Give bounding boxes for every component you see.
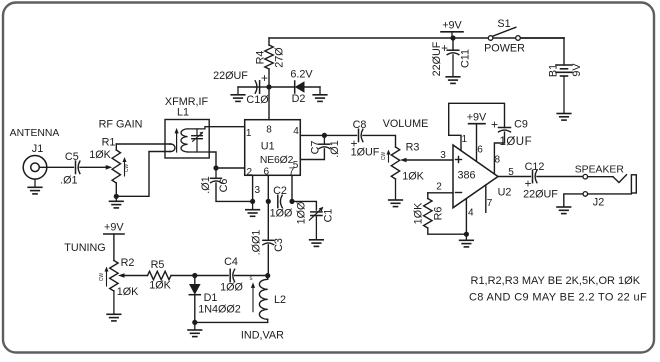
potentiometer R2 (110, 261, 118, 292)
node R4/C10/D2/pin8 (266, 84, 271, 89)
svg-text:C4: C4 (224, 256, 238, 268)
svg-text:C3: C3 (273, 238, 285, 252)
transformer L1 bottom link (188, 151, 210, 153)
svg-text:22ØUF: 22ØUF (431, 41, 443, 76)
wire node to D2 (269, 86, 295, 88)
svg-text:C11: C11 (460, 49, 472, 68)
wire L1 secondary to node C6 (209, 152, 216, 168)
svg-text:POWER: POWER (484, 43, 525, 55)
capacitor C3 (263, 239, 274, 241)
wire C7 to pin5 (300, 149, 324, 160)
IC U1 NE602 box (245, 120, 301, 176)
svg-text:.Ø1: .Ø1 (60, 175, 77, 187)
svg-text:C12: C12 (525, 161, 545, 173)
battery B1 (556, 64, 572, 66)
svg-text:NE6Ø2: NE6Ø2 (260, 155, 294, 166)
svg-text:R6: R6 (433, 207, 445, 221)
jack plug body (631, 175, 636, 193)
capacitor C7 (323, 135, 325, 144)
svg-text:R5: R5 (151, 259, 165, 271)
plus input mark (456, 159, 462, 161)
wire R1 top to L1 (116, 143, 170, 145)
node L1/C6/pin2 (213, 165, 218, 170)
node pin4/C7 (322, 133, 327, 138)
node R6/pin4 (464, 232, 469, 237)
ground U2 pin4 (465, 234, 467, 240)
resistor R6 (427, 193, 429, 199)
wire D1 to bottom node (194, 295, 196, 323)
wiper arrow R2 (118, 273, 125, 278)
capacitor C5 (75, 161, 77, 173)
svg-text:TUNING: TUNING (64, 242, 105, 254)
wire L2 bottom to D1 (195, 321, 268, 323)
svg-text:7: 7 (487, 198, 493, 209)
wire R2 to ground (113, 291, 115, 314)
wire U1 pin7 (291, 175, 293, 201)
node +9V/C11 (450, 35, 455, 40)
wire U2 pin7 stub (485, 185, 487, 212)
wire U1 pin8 (268, 87, 270, 120)
wire R3 wiper to U2 pin3 (407, 159, 454, 161)
svg-text:1ØUF: 1ØUF (351, 147, 380, 159)
transformer L1 primary loop (170, 144, 175, 152)
svg-text:2: 2 (436, 181, 442, 192)
wire jack sleeve to ground (564, 194, 583, 207)
wire R1 bottom (115, 183, 117, 196)
ground C1 (310, 239, 324, 241)
transformer L1 secondary winding (181, 129, 188, 152)
svg-text:.ØØ1: .ØØ1 (251, 230, 263, 256)
svg-text:1ØØ: 1ØØ (296, 201, 308, 224)
capacitor C9 (499, 127, 511, 129)
svg-text:C2: C2 (273, 185, 287, 197)
wire B1 to ground (563, 76, 565, 113)
capacitor C6 (215, 168, 217, 178)
wire U2 pin2 (428, 192, 453, 194)
svg-text:22ØUF: 22ØUF (523, 189, 558, 201)
capacitor C1 variable (311, 211, 322, 213)
diode D2 6.2V (294, 81, 296, 93)
svg-text:9V: 9V (571, 63, 583, 77)
svg-text:5: 5 (508, 167, 514, 178)
svg-text:2: 2 (247, 167, 253, 178)
node pin7/C2 (289, 199, 294, 204)
svg-text:L1: L1 (177, 107, 189, 119)
svg-text:U1: U1 (261, 141, 275, 153)
cw arrow R1 (124, 161, 126, 176)
svg-text:RF GAIN: RF GAIN (99, 119, 143, 131)
svg-text:C6: C6 (218, 179, 230, 193)
wire +9V to R2 (113, 234, 115, 261)
arrow L2 adjust (252, 286, 254, 312)
svg-text:.Ø1: .Ø1 (200, 176, 212, 193)
wire R3 to ground (395, 179, 397, 200)
wire R2 wiper to R5 (125, 275, 148, 277)
svg-text:1ØØ: 1ØØ (220, 282, 243, 294)
wire U2 pin6 (476, 124, 478, 162)
svg-text:22ØUF: 22ØUF (213, 70, 248, 82)
jack J2 sleeve contact (583, 192, 588, 197)
svg-text:C7: C7 (310, 141, 322, 155)
svg-text:6: 6 (477, 145, 483, 156)
wire U2 pin1 bypass loop (449, 103, 505, 150)
wire U2 pin4 (465, 199, 467, 234)
ground D2 (319, 87, 321, 95)
wire C11 top (452, 38, 454, 50)
svg-text:+9V: +9V (467, 112, 487, 124)
wire C12 to jack (537, 176, 583, 178)
wire R4 to node (268, 69, 270, 87)
wire C3 to node (267, 245, 269, 276)
svg-text:J1: J1 (32, 143, 43, 155)
wire U1 pin3 (252, 175, 254, 201)
switch S1 (488, 36, 493, 41)
transformer L1 trimmer capacitor (196, 129, 198, 136)
transformer L1 tuning arrow (176, 132, 178, 153)
wire pin4 net to C8 (324, 134, 356, 136)
svg-text:+9V: +9V (442, 20, 462, 32)
svg-text:U2: U2 (498, 187, 512, 199)
wire R1 bottom to L1 return (116, 152, 170, 197)
svg-text:27Ø: 27Ø (274, 47, 286, 68)
svg-text:S1: S1 (497, 18, 510, 30)
wire jack tip (588, 176, 613, 178)
svg-text:R3: R3 (406, 142, 420, 154)
resistor R4 (265, 45, 273, 69)
wire C6 to pin3 ground (216, 183, 253, 202)
wire C11 to ground (452, 55, 454, 77)
node pin6/C2 (266, 199, 271, 204)
wiper arrow R1 (106, 165, 113, 170)
jack J2 tip contact (583, 174, 588, 179)
svg-text:CW: CW (381, 152, 387, 161)
ground B1 (557, 113, 571, 115)
svg-text:CW: CW (99, 273, 105, 282)
wire node to U1 pin2 (216, 167, 245, 169)
svg-text:1: 1 (246, 128, 252, 139)
svg-text:L2: L2 (274, 294, 286, 306)
svg-text:s: s (250, 276, 253, 282)
wire R6 to node (428, 228, 467, 234)
capacitor C8 (358, 129, 360, 141)
svg-text:8: 8 (495, 155, 501, 166)
svg-text:+9V: +9V (104, 222, 124, 234)
ground J1 (28, 186, 42, 188)
wire U1 pin6 (267, 175, 269, 240)
wire C4 to node L2 (235, 275, 268, 277)
connector J1 (23, 156, 47, 180)
op-amp U2 386 triangle (453, 145, 498, 208)
wire top power rail (269, 37, 564, 39)
svg-text:R4: R4 (255, 51, 267, 65)
svg-text:1ØK: 1ØK (117, 286, 139, 298)
svg-text:C9: C9 (514, 119, 528, 131)
svg-text:C1: C1 (323, 209, 335, 223)
svg-text:R1,R2,R3 MAY BE 2K,5K,OR 1ØK: R1,R2,R3 MAY BE 2K,5K,OR 1ØK (471, 275, 641, 287)
wire C10 to ground (238, 86, 255, 88)
node pin3 ground (250, 199, 255, 204)
svg-text:+: + (261, 71, 268, 85)
svg-text:D1: D1 (204, 292, 218, 304)
wire R5 to node (171, 275, 195, 277)
ground pin3 (252, 201, 254, 209)
ground C10 (237, 87, 239, 95)
svg-text:C8 AND C9 MAY BE 2.2 TO 22 uF: C8 AND C9 MAY BE 2.2 TO 22 uF (469, 291, 647, 303)
svg-text:1ØK: 1ØK (89, 149, 111, 161)
cw arrow R3 (388, 154, 390, 163)
node R5/C4/D1 (192, 273, 197, 278)
wire pin7 to C1 (292, 201, 316, 210)
capacitor C4 (229, 269, 231, 281)
transformer L1 box (165, 120, 209, 159)
wire C9 to pin8 (494, 132, 504, 174)
node C3/C4/L2 (265, 273, 270, 278)
svg-text:B1: B1 (548, 64, 560, 77)
jack spring contact (613, 175, 627, 183)
wire node to C4 (195, 275, 228, 277)
wiper arrow R3 (400, 158, 407, 163)
node R1 bottom (114, 194, 119, 199)
ground R1 (115, 196, 117, 201)
svg-text:R2: R2 (121, 257, 135, 269)
svg-text:3: 3 (255, 185, 261, 196)
wire U1 pin4 (300, 134, 324, 136)
svg-text:C5: C5 (65, 151, 79, 163)
svg-text:SPEAKER: SPEAKER (575, 165, 625, 176)
ground R2 (107, 313, 121, 315)
wire U2 output (498, 176, 531, 178)
svg-text:6.2V: 6.2V (290, 69, 313, 81)
svg-text:J2: J2 (593, 197, 604, 209)
svg-text:C8: C8 (353, 119, 367, 131)
svg-text:8: 8 (266, 125, 272, 136)
wire J1 to ground (34, 179, 36, 187)
wire C8 to R3 (363, 135, 396, 147)
resistor R5 (148, 271, 172, 279)
svg-text:1ØK: 1ØK (149, 280, 171, 292)
ground R3 (389, 199, 403, 201)
svg-text:1ØK: 1ØK (413, 202, 425, 224)
svg-text:R1: R1 (102, 137, 116, 149)
svg-text:D2: D2 (292, 93, 306, 105)
wire L1 to U1 pin1 (205, 126, 245, 128)
cw arrow R2 (106, 271, 108, 287)
capacitor C11 (447, 49, 459, 51)
svg-text:1: 1 (462, 134, 468, 145)
potentiometer R3 (391, 147, 399, 179)
capacitor C12 (532, 170, 534, 182)
capacitor C10 (259, 81, 261, 93)
wire jack sleeve to plug (588, 193, 632, 195)
wire C5 to R1 wiper (80, 166, 106, 168)
ground J2 (557, 206, 571, 208)
wire corner down to B1 (563, 38, 565, 65)
svg-text:1N4ØØ2: 1N4ØØ2 (198, 304, 241, 316)
svg-text:+: + (491, 118, 498, 132)
wire R4 top stem (268, 38, 270, 45)
svg-text:4: 4 (293, 126, 299, 137)
capacitor C2 (277, 195, 279, 207)
svg-text:386: 386 (457, 170, 475, 182)
transformer L1 top link (188, 127, 205, 129)
svg-text:C1Ø: C1Ø (246, 94, 269, 106)
node D1 bottom (192, 320, 197, 325)
ground C11 (446, 76, 460, 78)
inductor L2 variable (267, 276, 269, 280)
svg-text:VOLUME: VOLUME (383, 118, 429, 130)
svg-text:1ØØ: 1ØØ (270, 208, 293, 220)
wire node to C10 (256, 86, 269, 88)
svg-text:4: 4 (468, 208, 474, 219)
wire D2 to ground (305, 86, 321, 88)
wire S1 to corner (520, 37, 564, 39)
svg-text:CW: CW (124, 164, 130, 173)
svg-text:.Ø1: .Ø1 (329, 140, 341, 157)
svg-text:3: 3 (440, 150, 446, 161)
potentiometer R1 (115, 144, 117, 150)
svg-text:1ØK: 1ØK (402, 171, 424, 183)
wire J1 to C5 (39, 166, 73, 168)
ground D1 (194, 322, 196, 329)
wire C1 to ground (315, 216, 317, 240)
svg-text:IND,VAR: IND,VAR (241, 330, 284, 342)
svg-text:ANTENNA: ANTENNA (10, 128, 60, 139)
minus input mark (456, 192, 462, 194)
diode D1 (194, 276, 196, 285)
